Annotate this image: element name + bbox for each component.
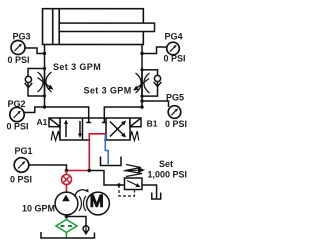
wire P pressure line valve to junction (red) [88,140,90,171]
relief valve arrow [127,181,138,186]
gauge PG3 stub wire [25,48,45,54]
motor M1 [87,192,110,215]
tank T1 under valve [100,157,121,166]
flow control FC-right bypass loop [142,70,158,96]
pump P1 [55,192,78,215]
adjustment arrow FC-right [136,79,149,89]
svg-text:10 GPM: 10 GPM [22,203,55,213]
node pump header left [65,169,69,173]
svg-text:Set 3 GPM: Set 3 GPM [53,62,101,72]
gauge PG2 stub wire [24,107,45,113]
svg-text:0 PSI: 0 PSI [6,121,28,131]
relief valve pilot line (dashed) [119,185,135,196]
pressure gauge PG2 [10,107,24,121]
solenoid A1 box [49,118,60,127]
wire FC-right main line [141,70,143,96]
wire A-line: FC-left to valve port A [45,96,89,118]
svg-text:A1: A1 [36,117,47,127]
wire B-line: FC-right to valve port B [104,96,142,118]
svg-text:PG1: PG1 [14,146,32,156]
node pump header right [87,169,91,173]
wire to relief valve [89,170,124,185]
spring left [51,131,60,141]
valve V1 left box arrows (parallel) [65,122,67,137]
gauge PG5 stub wire [142,101,169,107]
svg-text:M: M [90,192,104,210]
node pump bottom [65,215,69,219]
svg-text:0 PSI: 0 PSI [164,54,186,64]
cylinder C1 body [43,9,144,45]
reservoir bottom line [41,232,95,238]
svg-text:0 PSI: 0 PSI [8,55,30,65]
rotation arrow [75,190,86,197]
spring right [130,131,139,141]
node FC-left bottom [43,94,46,97]
node relief pilot tee [117,183,120,186]
check valve in FC-left: ball [25,76,31,82]
wire pump suction [65,215,67,220]
svg-text:PG3: PG3 [13,31,31,41]
pressure gauge PG1 [14,158,29,173]
pressure gauge PG5 [168,106,181,119]
svg-text:B1: B1 [147,119,158,129]
check valve in FC-left: seat [25,83,33,88]
svg-text:1,000 PSI: 1,000 PSI [147,170,187,180]
wire cap port down [44,44,46,68]
filter F1 (strainer) [56,219,77,232]
wire drain header [66,216,86,225]
node FC-right bottom [140,95,143,98]
coupling [79,196,81,211]
wire T return line valve to tank (blue) [105,140,108,164]
wire relief outlet [142,185,157,198]
flow restrictor arcs FC-left [38,72,44,92]
relief valve spring [125,165,142,177]
svg-text:PG2: PG2 [8,99,26,109]
wire FC-left main line [44,68,46,96]
valve V1 center box blocked port A stub [88,118,90,123]
gauge PG1 stub wire [29,165,67,171]
node B junction corner [140,105,143,108]
cylinder rod [59,23,154,31]
node FC-left top [43,67,46,70]
wire red pump header [66,169,89,171]
adjustment arrow FC-left [38,77,51,87]
node PG4 tee [140,52,143,55]
pressure gauge PG3 [11,40,25,54]
node PG3 tee [43,52,46,55]
relief valve RV1 box [124,178,142,190]
pressure gauge PG4 [167,42,180,55]
node PG5 tee [140,99,143,102]
svg-text:0 PSI: 0 PSI [165,119,187,129]
flow control FC-left bypass loop [28,68,45,96]
svg-text:0 PSI: 0 PSI [10,174,32,184]
flow restrictor arcs FC-right [136,73,142,93]
valve V1 center box blocked port B stub [103,118,105,123]
check valve CV1 (drain to tank) [83,226,89,232]
valve V1 P-T tandem bridge (red/blue) [90,139,104,142]
gauge PG4 stub wire [142,47,167,54]
tank T2 relief [152,193,161,200]
valve V1 body: position boxes [60,118,130,140]
solenoid B1 box [130,118,141,127]
shut-off/test point (red circle-X) [65,170,67,174]
wire rod port down [141,45,143,70]
svg-text:PG5: PG5 [166,92,184,102]
valve V1 right box crossed arrows [110,122,124,136]
cylinder piston [52,9,54,45]
node A junction [43,105,46,108]
node FC-right top [140,68,143,71]
svg-text:PG4: PG4 [165,31,183,41]
svg-text:Set: Set [159,159,173,169]
relief valve adjustment arrow [123,169,138,172]
check valve in FC-right: ball [154,75,160,81]
check valve in FC-right: seat [154,82,162,87]
svg-text:Set 3 GPM: Set 3 GPM [84,85,132,95]
